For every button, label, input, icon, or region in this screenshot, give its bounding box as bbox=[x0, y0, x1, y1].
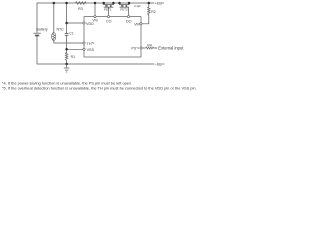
svg-text:Battery: Battery bbox=[36, 28, 48, 32]
resistor R2 bbox=[148, 7, 151, 15]
node VSS junction bbox=[65, 48, 68, 51]
svg-text:R3: R3 bbox=[78, 7, 83, 11]
svg-text:DO: DO bbox=[126, 19, 132, 23]
op-amp U1 (IC body outline) bbox=[84, 17, 141, 57]
junction FET2 right terminal bbox=[128, 2, 131, 5]
junction on top rail at NTC branch bbox=[53, 2, 56, 5]
svg-text:R4: R4 bbox=[147, 43, 151, 47]
svg-text:VSS: VSS bbox=[87, 48, 95, 52]
pin PS (right edge, note *4) bbox=[140, 47, 142, 49]
wire bottom supply rail (battery - to EB-) bbox=[37, 35, 154, 64]
svg-text:FET2: FET2 bbox=[120, 8, 128, 12]
wire VDD feed from node to VDD pin bbox=[67, 22, 83, 24]
battery BT1 bbox=[33, 33, 40, 35]
resistor R3 (series in top rail) bbox=[76, 2, 87, 5]
pin VM (right edge) bbox=[140, 23, 142, 25]
pin DO (top edge) bbox=[127, 16, 129, 18]
svg-text:TH*5: TH*5 bbox=[87, 41, 95, 46]
wire C1 bottom down to R1 top bbox=[66, 36, 68, 53]
pin VNI (top edge) bbox=[94, 16, 96, 18]
junction FET1 right terminal bbox=[112, 2, 115, 5]
transistor FET2 (pass element in top rail, gate to DO) bbox=[120, 3, 130, 7]
thermistor NTC bbox=[52, 33, 56, 41]
wire DO pin up to FET2 gate bbox=[128, 7, 130, 15]
wire NTC branch down from top rail bbox=[53, 3, 55, 33]
wire R4 to external input arrow bbox=[154, 47, 155, 49]
svg-text:External input: External input bbox=[158, 46, 184, 51]
wire VM pin to R2 bottom bbox=[142, 15, 149, 24]
node External input (arrow into PS via R4) bbox=[155, 47, 156, 49]
wire NTC bottom to TH pin bbox=[54, 41, 83, 44]
transistor FET1 (pass element in top rail, gate to CO) bbox=[104, 3, 114, 7]
svg-text:R2: R2 bbox=[151, 10, 156, 14]
diode of FET2 (body diode) bbox=[125, 5, 127, 6]
svg-text:FET1: FET1 bbox=[104, 8, 112, 12]
ground bbox=[64, 64, 70, 72]
junction FET2 left terminal bbox=[118, 2, 121, 5]
svg-text:+EB: +EB bbox=[155, 2, 163, 6]
wire R1 bottom to bottom rail bbox=[66, 61, 68, 65]
pin VSS (left edge) bbox=[83, 48, 85, 50]
junction FET1 left terminal bbox=[102, 2, 105, 5]
resistor R1 bbox=[65, 53, 68, 61]
junction on top rail at R2 branch bbox=[148, 2, 151, 5]
resistor R4 bbox=[146, 47, 154, 49]
wire VSS node to VSS pin bbox=[67, 48, 83, 50]
svg-text:R1: R1 bbox=[71, 55, 76, 59]
wire top supply rail (battery + to EB+) bbox=[37, 3, 154, 33]
svg-text:*5. If the overheat detection: *5. If the overheat detection function i… bbox=[2, 85, 197, 90]
pin CO (top edge) bbox=[107, 16, 109, 18]
node VDD tap junction bbox=[65, 22, 68, 25]
wire PS pin to R4 bbox=[142, 47, 145, 49]
wire CO pin up to FET1 gate bbox=[108, 7, 110, 15]
svg-text:C1: C1 bbox=[69, 31, 74, 35]
node bottom rail junction at ground bbox=[65, 63, 68, 66]
junction on top rail at C1 branch bbox=[65, 2, 68, 5]
wire C1 branch down from top rail bbox=[66, 3, 68, 33]
svg-text:NTC: NTC bbox=[57, 27, 65, 31]
svg-text:VM: VM bbox=[134, 23, 140, 27]
junction on top rail at VNI tap bbox=[94, 2, 97, 5]
svg-text:−EB: −EB bbox=[155, 63, 163, 67]
svg-text:CO: CO bbox=[106, 19, 112, 23]
svg-text:0.1µF: 0.1µF bbox=[134, 4, 141, 8]
svg-text:VDD: VDD bbox=[86, 22, 94, 26]
wire R2 top to top rail bbox=[148, 3, 150, 7]
pin TH (left edge, note *5) bbox=[83, 42, 85, 44]
diode of FET1 (body diode) bbox=[110, 5, 112, 6]
wire VNI pin up to top rail bbox=[94, 3, 96, 16]
svg-text:PS*4: PS*4 bbox=[131, 46, 139, 51]
capacitor C1 bbox=[65, 34, 69, 36]
pin VDD (left edge) bbox=[83, 22, 85, 24]
